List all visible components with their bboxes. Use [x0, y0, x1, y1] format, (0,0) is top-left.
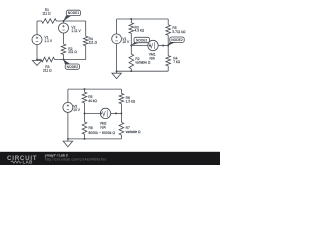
wire rail to R5	[167, 19, 169, 25]
svg-text:5.711 kΩ: 5.711 kΩ	[172, 30, 186, 34]
wire R6 to VM row	[120, 104, 122, 114]
resistor R3 c2	[129, 23, 134, 34]
CircuitLab logo	[7, 155, 37, 164]
svg-text:variable Ω: variable Ω	[135, 60, 150, 64]
node NODE2 flag	[64, 60, 80, 70]
ground c2	[112, 71, 122, 78]
junction bottom mid c2	[130, 70, 132, 72]
svg-text:NODE2: NODE2	[171, 38, 183, 42]
junction VM left c3	[84, 112, 86, 114]
node NODE2 junction	[63, 59, 65, 61]
wire to R8	[84, 113, 86, 122]
svg-text:NODE1: NODE1	[136, 38, 148, 42]
junction ground node	[36, 59, 38, 61]
svg-text:1.11 V: 1.11 V	[71, 29, 81, 33]
wire NODE1 to R2 c2	[130, 46, 132, 55]
svg-text:LAB: LAB	[23, 160, 34, 165]
wire R7 to bottom rail	[120, 135, 122, 139]
voltmeter VM2	[100, 108, 110, 118]
svg-text:111 Ω: 111 Ω	[42, 12, 51, 16]
wire VM2 to right branch	[111, 112, 122, 114]
resistor R4	[83, 36, 88, 46]
wire NODE1 to V2	[63, 21, 65, 23]
resistor R6 c3	[119, 94, 124, 104]
svg-text:10 V: 10 V	[122, 40, 130, 44]
junction top mid c2	[130, 18, 132, 20]
junction ground c2	[116, 70, 118, 72]
wire NODE1 to VM1	[131, 45, 148, 47]
wire bottom rail c2	[117, 70, 169, 72]
voltmeter VM1	[148, 40, 158, 50]
wire R2 to bottom rail c2	[130, 69, 132, 72]
wire R2 to NODE2	[63, 55, 65, 60]
svg-text:111 Ω: 111 Ω	[89, 40, 98, 44]
resistor R5 c2	[166, 25, 171, 36]
svg-text:variable Ω: variable Ω	[126, 130, 141, 134]
wire V1b top	[116, 19, 118, 34]
wire top rail left	[37, 20, 42, 22]
resistor R2 variable c2	[129, 54, 134, 69]
node NODE1 junction	[63, 20, 65, 22]
node NODE2 flag c2	[168, 37, 184, 46]
wire bottom rail left	[37, 59, 41, 61]
resistor R1	[42, 19, 57, 24]
svg-text:N/A: N/A	[100, 125, 106, 129]
svg-text:NODE2: NODE2	[67, 65, 79, 69]
svg-text:6000k ~ 6000k Ω: 6000k ~ 6000k Ω	[89, 131, 116, 135]
wire right branch upper	[85, 21, 87, 36]
resistor R5 c3	[82, 92, 87, 103]
wire R8 to bottom rail	[84, 134, 86, 139]
wire R4 to bottom rail	[167, 66, 169, 71]
wire V1b bottom	[116, 43, 118, 71]
svg-text:1.5 kΩ: 1.5 kΩ	[126, 100, 136, 104]
node NODE2 junction c2	[167, 45, 169, 47]
terminal dot VM2 right	[115, 112, 117, 114]
svg-text:211 Ω: 211 Ω	[68, 50, 77, 54]
wire R5 to VM row	[84, 103, 86, 113]
resistor R4 c2	[166, 56, 171, 66]
wire V3 top	[67, 89, 69, 103]
svg-text:R8: R8	[89, 126, 93, 130]
junction VM right c3	[120, 112, 122, 114]
wire NODE2 to R4	[167, 46, 169, 56]
wire bottom rail right	[55, 59, 86, 61]
wire rail to R3	[130, 19, 132, 23]
wire V2 to R2	[63, 33, 65, 44]
svg-text:10 V: 10 V	[73, 108, 81, 112]
svg-text:N/A: N/A	[149, 56, 155, 60]
svg-text:211 Ω: 211 Ω	[43, 68, 52, 72]
svg-text:http://circuitlab.com/c/s4ab4f: http://circuitlab.com/c/s4ab4f99a7bu	[45, 158, 107, 162]
wire top rail c3	[68, 88, 122, 90]
wire top rail right	[56, 20, 85, 22]
voltage source V1 c2	[112, 34, 130, 44]
resistor R3	[41, 57, 54, 62]
ground	[32, 60, 41, 66]
terminal dot VM1 right	[162, 45, 164, 47]
svg-text:NODE1: NODE1	[68, 11, 80, 15]
wire to VM2	[85, 112, 101, 114]
watermark bar	[0, 152, 220, 165]
voltage source V2	[59, 23, 82, 33]
junction ground c3	[67, 138, 69, 140]
voltage source V3	[63, 102, 81, 112]
terminal dot VM1 left	[149, 45, 151, 47]
wire top rail c2	[117, 18, 169, 20]
wire R3 to NODE1 c2	[130, 33, 132, 45]
wire rail to R6	[120, 89, 122, 93]
wire VM1 to NODE2	[158, 45, 168, 47]
svg-text:44 kΩ: 44 kΩ	[88, 99, 97, 103]
resistor R2	[61, 44, 66, 55]
svg-text:7 kΩ: 7 kΩ	[173, 60, 180, 64]
resistor R8 variable c3	[82, 122, 87, 134]
node NODE1 flag c2	[131, 37, 149, 45]
svg-text:1.1 V: 1.1 V	[44, 39, 52, 43]
svg-text:4.3 kΩ: 4.3 kΩ	[135, 29, 145, 33]
wire V1 bottom	[36, 44, 38, 59]
wire right branch lower	[85, 46, 87, 60]
wire bottom rail c3	[68, 138, 122, 140]
ground c3	[63, 139, 73, 147]
node NODE1 junction c2	[130, 45, 132, 47]
wire V1 top to rail	[36, 21, 38, 35]
resistor R7 variable c3	[119, 122, 124, 135]
terminal dot VM2 left	[100, 112, 102, 114]
junction bottom mid c3	[84, 138, 86, 140]
node NODE1 flag	[64, 10, 81, 21]
wire R5 to NODE2	[167, 35, 169, 45]
wire V3 bottom	[67, 112, 69, 139]
wire to R7	[120, 113, 122, 122]
junction top mid c3	[84, 88, 86, 90]
wire rail to R5 c3	[84, 89, 86, 92]
voltage source V1	[32, 35, 53, 45]
